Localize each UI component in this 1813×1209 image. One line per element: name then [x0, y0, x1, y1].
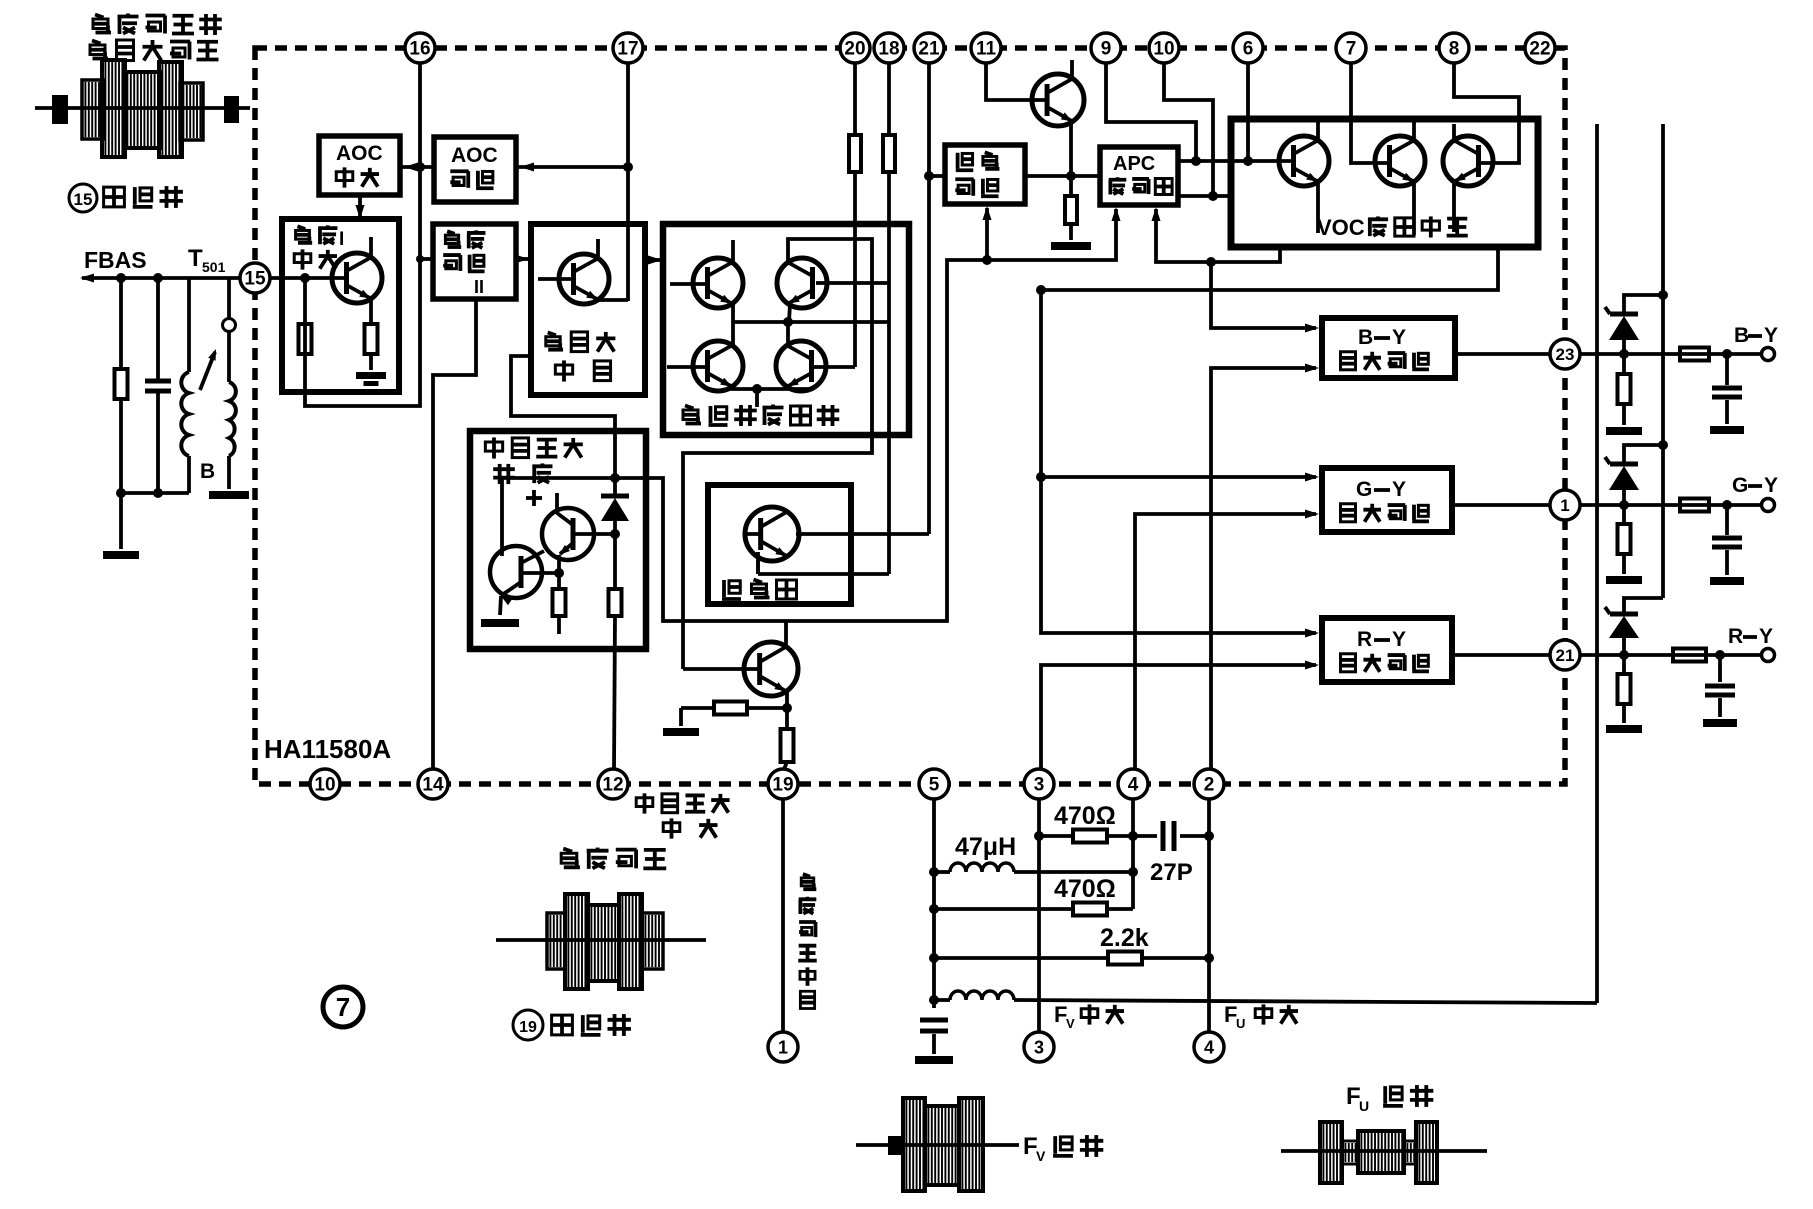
transistor Q4 (saturation ctl bottom-right, mirrored): [776, 341, 826, 391]
wire pin7 to V2 base: [1351, 63, 1390, 163]
resistor (follower bias): [681, 702, 787, 727]
node VCO return to pin2 line: [1206, 257, 1216, 267]
node R-Y cap junction: [1715, 650, 1725, 660]
svg-text:B: B: [1734, 324, 1749, 347]
wire B-Y lower input from pin2 line: [1211, 364, 1319, 770]
node rail junction G-Y: [1658, 440, 1668, 450]
wire V3 emitter: [1452, 182, 1456, 232]
svg-text:23: 23: [1556, 345, 1575, 364]
label G-Y: [1732, 474, 1778, 497]
svg-text:12: 12: [602, 775, 623, 796]
node pin16-line branch: [416, 255, 424, 263]
wire Q3 collector: [731, 322, 735, 345]
node base junction (pin15): [300, 273, 310, 283]
wire AOC det input from pin17: [516, 163, 628, 172]
plus sign (shaper): [526, 490, 542, 506]
resistor (APC input bias): [1065, 176, 1077, 240]
wire emitter bus (top pair): [733, 320, 889, 324]
node gate pulse to killer det: [982, 255, 992, 265]
svg-text:6: 6: [1243, 39, 1254, 60]
wire pin17 line: [626, 63, 630, 301]
ground (pin5): [915, 1056, 953, 1064]
ground (G-Y bias): [1606, 576, 1642, 584]
IC boundary HA11580A (dashed box): [255, 48, 1565, 784]
block chroma amplifier I: [282, 219, 399, 392]
pin 18 (top): [874, 33, 904, 63]
pin 11 (top): [971, 33, 1001, 63]
svg-text:2: 2: [1204, 775, 1215, 796]
pin 21 (right): [1550, 640, 1580, 670]
resistor (R-Y series): [1673, 649, 1706, 662]
node row1 pin2: [1204, 831, 1214, 841]
pin 15 (left): [240, 263, 270, 293]
diode (G-Y clamp, zener): [1605, 445, 1663, 505]
svg-text:470Ω: 470Ω: [1054, 802, 1116, 830]
svg-text:9: 9: [1101, 39, 1112, 60]
ground (chroma amp I): [356, 372, 386, 379]
Fv waveform icon: [856, 1098, 1019, 1191]
resistor (pin19 series): [781, 708, 794, 769]
wire burst gate output to saturation control: [645, 256, 662, 265]
node row3 pin2: [1204, 953, 1214, 963]
wire pin18 line to killer emitter: [758, 63, 889, 574]
ground (T501 secondary): [209, 491, 249, 499]
svg-text:4: 4: [1128, 775, 1139, 796]
wire V2 emitter: [1412, 182, 1416, 235]
wire pin15 to chroma amp: [270, 276, 347, 280]
node follower emitter junction: [782, 703, 792, 713]
pin 2 (bottom): [1194, 769, 1224, 799]
diode (gate pulse clamp): [601, 478, 629, 534]
wire AOC amp to chroma amp I (arrow down): [356, 195, 365, 219]
transistor (color killer): [745, 507, 799, 561]
resistor (B-Y bias): [1618, 354, 1631, 425]
block color saturation control: [663, 224, 909, 435]
ground (B-Y bias): [1606, 427, 1642, 435]
block gate pulse shaper: [470, 431, 646, 649]
wire pin19 to output terminal 1: [781, 799, 785, 1032]
svg-text:7: 7: [336, 992, 350, 1022]
pin 17 (top): [613, 33, 643, 63]
resistor (G-Y series): [1680, 499, 1709, 512]
pin 10 (top): [1149, 33, 1179, 63]
label pin-15 waveform caption: [69, 184, 183, 212]
svg-text:470Ω: 470Ω: [1054, 875, 1116, 903]
svg-text:R: R: [1357, 628, 1372, 651]
svg-text:B: B: [200, 460, 215, 483]
label chroma signal output (vertical): [803, 874, 810, 877]
node row4 pin5: [929, 995, 939, 1005]
ground (follower bias): [663, 728, 699, 736]
wire pin4 column: [1131, 799, 1135, 909]
pin 20 (top): [840, 33, 870, 63]
diode (B-Y clamp, zener): [1605, 295, 1663, 354]
pin 7 (top): [1336, 33, 1366, 63]
wire VCO subcarrier feed to G-Y and R-Y: [1041, 245, 1498, 633]
wire Q1 base: [670, 282, 707, 286]
transformer T501: [181, 245, 236, 493]
wire killer base stub: [743, 532, 760, 536]
svg-text:22: 22: [1529, 39, 1550, 60]
wire Q2 collector loop to killer-follower base: [683, 239, 872, 669]
transistor Q2 (saturation ctl top-right, mirrored): [777, 258, 827, 308]
svg-text:16: 16: [409, 39, 430, 60]
svg-text:Y: Y: [1764, 474, 1778, 497]
svg-text:Y: Y: [1392, 326, 1406, 349]
svg-text:21: 21: [1556, 646, 1575, 665]
wire pin21 line to killer collector: [799, 63, 929, 534]
transistor Qa (shaper left): [490, 546, 544, 605]
block APC phase detector: [1100, 147, 1178, 205]
svg-text:I: I: [339, 229, 344, 250]
wire pin20 to Q4 base: [814, 63, 855, 367]
label Fu input: [1224, 1002, 1298, 1031]
block AOC amplifier: [319, 136, 400, 195]
svg-text:VOC: VOC: [1317, 215, 1365, 240]
wire follower collector: [784, 621, 788, 647]
svg-text:10: 10: [1153, 39, 1174, 60]
wire G-Y lower input from pin4 line: [1135, 510, 1319, 770]
svg-text:V: V: [1036, 1148, 1046, 1164]
Fu waveform icon: [1281, 1122, 1487, 1183]
wire follower emitter: [785, 691, 789, 708]
svg-text:3: 3: [1034, 775, 1045, 796]
transistor Q3 (saturation ctl bottom-left): [693, 341, 743, 391]
node R-Y diode junction: [1619, 650, 1629, 660]
terminal R-Y: [1762, 649, 1775, 662]
wire killer det bottom input: [983, 206, 992, 260]
node 47uH left: [929, 867, 939, 877]
wire shaper left rail: [500, 478, 504, 556]
svg-text:27P: 27P: [1150, 859, 1193, 886]
node FBAS junction A: [116, 273, 126, 283]
block burst gate (color sync gate): [531, 224, 645, 395]
node rail junction B-Y: [1658, 290, 1668, 300]
wire B-Y upper input from VCO line: [1211, 262, 1319, 333]
svg-text:20: 20: [844, 39, 865, 60]
pin 10 (bottom): [310, 769, 340, 799]
terminal 1 (chroma output): [768, 1032, 798, 1062]
wire collector (burst gate): [596, 239, 600, 257]
label gate pulse input: [636, 793, 729, 838]
svg-text:8: 8: [1449, 39, 1460, 60]
wire pin11 to buffer base: [986, 63, 1048, 100]
node G-Y upper branch: [1036, 472, 1046, 482]
svg-text:15: 15: [244, 269, 266, 290]
ground (R-Y cap): [1703, 719, 1737, 727]
pin 21 (top): [914, 33, 944, 63]
ground (FBAS network): [103, 493, 139, 559]
wire branch to chroma det II: [420, 257, 433, 261]
node G-Y diode junction: [1619, 500, 1629, 510]
inductor (second) and long wire to right rail: [934, 991, 1597, 1003]
wire pin2 column: [1207, 799, 1211, 1032]
pin 14 (bottom): [418, 769, 448, 799]
pin 19 (bottom): [768, 769, 798, 799]
wire Qb collector stub: [555, 493, 559, 514]
ground (shaper): [481, 619, 519, 627]
node pin6 junction: [1243, 156, 1253, 166]
block G-Y sync detector: [1322, 468, 1452, 532]
capacitor (pin5 to ground): [920, 1018, 948, 1055]
svg-text:AOC: AOC: [336, 142, 383, 165]
node Qb emitter: [554, 568, 564, 578]
node pin10 junction: [1208, 191, 1218, 201]
resistor (FBAS shunt): [115, 278, 128, 493]
node saturation control stub: [752, 384, 762, 394]
node 47uH right: [1128, 867, 1138, 877]
node shaper rail junction: [610, 473, 620, 483]
pin 6 (top): [1233, 33, 1263, 63]
capacitor 27P: [1161, 821, 1166, 851]
node bottom junction A: [116, 488, 126, 498]
node B-Y diode junction: [1619, 349, 1629, 359]
terminal B-Y: [1762, 348, 1775, 361]
svg-text:15: 15: [74, 190, 93, 209]
svg-text:1: 1: [1560, 496, 1569, 515]
pin 3 (bottom): [1024, 769, 1054, 799]
capacitor (R-Y output): [1705, 655, 1735, 717]
svg-text:APC: APC: [1113, 153, 1155, 175]
node diode/collector junction: [610, 529, 620, 539]
svg-text:17: 17: [617, 39, 638, 60]
wire gate pulse output to killer det and APC: [615, 209, 1116, 621]
wire pin5 column: [932, 799, 936, 1008]
resistor (B-Y series): [1680, 348, 1709, 361]
wire Qb base to diode line: [575, 532, 615, 536]
wire pin21 branch to killer detector: [929, 174, 945, 178]
pin 5 (bottom): [919, 769, 949, 799]
node row1 pin3: [1034, 831, 1044, 841]
transistor (chroma output follower): [744, 642, 798, 696]
wire base (burst gate): [538, 277, 574, 281]
wire V2 collector: [1412, 122, 1416, 140]
wire pin9 line: [1106, 63, 1196, 161]
svg-text:G: G: [1732, 474, 1748, 497]
svg-text:R: R: [1728, 625, 1743, 648]
node row1 pin4: [1128, 831, 1138, 841]
wire Q1 emitter: [731, 304, 735, 322]
svg-text:FBAS: FBAS: [84, 247, 147, 273]
node buffer emitter junction: [1066, 171, 1076, 181]
wire shaper top rail: [503, 476, 615, 480]
wire Qa emitter to ground: [500, 596, 501, 615]
resistor (R-Y bias): [1618, 655, 1631, 723]
transistor Qb (shaper right): [542, 508, 594, 560]
svg-text:Y: Y: [1764, 324, 1778, 347]
svg-text:21: 21: [918, 39, 940, 60]
wire emitter to pin17 line: [596, 298, 628, 302]
wire Q2 base to pin18 line: [816, 281, 889, 285]
wire emitter bus (bottom pair): [727, 387, 813, 391]
wire pin16 feedback line: [305, 63, 420, 406]
wire Qb emitter junction: [557, 555, 561, 573]
label B-Y: [1734, 324, 1778, 347]
resistor (pin18 line): [883, 135, 895, 172]
wire R-Y lower input from pin3 line: [1041, 661, 1319, 770]
wire 2.2k row (pin5 to pin2): [934, 952, 1209, 965]
label Fv waveform: [1023, 1133, 1103, 1164]
svg-text:B: B: [1358, 326, 1373, 349]
block R-Y sync detector: [1322, 618, 1452, 682]
pin 4 (bottom): [1118, 769, 1148, 799]
svg-text:1: 1: [778, 1037, 788, 1057]
node AOC junction: [415, 162, 425, 172]
FBAS input wire: [80, 247, 245, 283]
pin 22 (top): [1525, 33, 1555, 63]
supply rail (right, inner): [1595, 124, 1599, 1003]
wire Q3 emitter: [731, 387, 735, 389]
block AOC detector: [434, 137, 516, 202]
wire Q3 base: [667, 365, 707, 369]
transistor V3 (VCO, mirrored): [1443, 136, 1493, 186]
capacitor (G-Y output): [1712, 505, 1742, 575]
pin 16 (top): [405, 33, 435, 63]
pin 12 (bottom): [598, 769, 628, 799]
resistor (pin20 line): [849, 135, 861, 172]
wire pin10 line: [1164, 63, 1213, 196]
svg-text:II: II: [474, 277, 484, 297]
resistor (G-Y bias): [1618, 505, 1631, 574]
wire follower base: [683, 667, 759, 671]
inductor 47uH: [934, 863, 1133, 872]
block B-Y sync detector: [1322, 318, 1455, 378]
ground (B-Y cap): [1710, 426, 1744, 434]
ground (R-Y bias): [1606, 725, 1642, 733]
svg-text:4: 4: [1204, 1037, 1214, 1057]
svg-text:2.2k: 2.2k: [1100, 924, 1149, 952]
wire Q2 emitter: [789, 304, 790, 322]
label Fv input: [1054, 1002, 1124, 1031]
wire APC output to VCO: [1178, 159, 1292, 163]
resistor (shaper emitter): [553, 573, 566, 634]
terminal 3 (Fv input): [1024, 1032, 1054, 1062]
resistor (chroma amp base): [299, 324, 312, 354]
wire burst gate to gate pulse shaper (thin feed): [511, 356, 615, 478]
node bottom junction B: [153, 488, 163, 498]
transistor V2 (VCO): [1375, 136, 1425, 186]
svg-text:14: 14: [422, 775, 444, 796]
svg-text:18: 18: [878, 39, 899, 60]
svg-text:U: U: [1359, 1098, 1369, 1114]
wire bottom bus of FBAS network: [121, 491, 189, 495]
pin 1 (right): [1550, 490, 1580, 520]
svg-text:Y: Y: [1392, 478, 1406, 501]
svg-text:T: T: [188, 245, 203, 272]
node row3 pin5: [929, 953, 939, 963]
resistor (diode line): [609, 534, 622, 769]
pin 8 (top): [1439, 33, 1469, 63]
node emitter bus junction: [783, 317, 793, 327]
svg-text:Y: Y: [1759, 625, 1773, 648]
capacitor (FBAS shunt): [145, 278, 171, 493]
label pin-19 waveform caption: [513, 1010, 631, 1040]
block killer detector (ACC det): [945, 145, 1025, 204]
resistor (chroma amp I emitter): [365, 299, 378, 370]
supply rail (right, outer): [1661, 124, 1665, 598]
wire 470ohm row 2 (pin5 to pin4): [934, 903, 1133, 916]
wire Q4 collector: [786, 322, 790, 345]
wire Qa base to emitter junction: [521, 571, 559, 575]
node pin17/AOC junction: [623, 162, 633, 172]
capacitor (B-Y output): [1712, 354, 1742, 424]
terminal G-Y: [1762, 499, 1775, 512]
diode (R-Y clamp, zener): [1605, 598, 1663, 655]
svg-text:Y: Y: [1392, 628, 1406, 651]
pin 9 (top): [1091, 33, 1121, 63]
transistor (burst gate): [559, 254, 609, 304]
node G-Y cap junction: [1722, 500, 1732, 510]
node pin21 to ACC det: [924, 171, 934, 181]
svg-text:HA11580A: HA11580A: [264, 734, 391, 764]
svg-text:19: 19: [772, 775, 793, 796]
wire chroma det II to pin14: [433, 299, 476, 769]
svg-text:11: 11: [976, 39, 997, 60]
wire killer emitter lead: [756, 552, 760, 574]
wire Q4 emitter: [785, 387, 789, 389]
node corner VCO feed: [1036, 285, 1046, 295]
svg-text:47μH: 47μH: [955, 833, 1016, 861]
wire B-Y output row: [1455, 352, 1762, 356]
wire AOC amp to AOC det: [400, 163, 434, 172]
label R-Y: [1728, 625, 1773, 648]
wire G-Y output row: [1452, 503, 1762, 507]
wire R-Y output row: [1452, 653, 1762, 657]
wire V3 collector: [1452, 124, 1456, 140]
wire 470ohm row (pin3 to pin2): [1039, 830, 1209, 843]
chroma signal waveform icon (pin19): [496, 848, 706, 989]
svg-text:U: U: [1236, 1016, 1245, 1031]
terminal 4 (Fu input): [1194, 1032, 1224, 1062]
block chroma detector II: [433, 224, 516, 299]
svg-text:G: G: [1356, 478, 1372, 501]
node pin9 junction: [1191, 156, 1201, 166]
ground (APC input bias): [1051, 242, 1091, 250]
svg-text:3: 3: [1034, 1037, 1044, 1057]
svg-text:5: 5: [929, 775, 940, 796]
svg-text:501: 501: [202, 259, 226, 275]
node B-Y cap junction: [1722, 349, 1732, 359]
ground (G-Y cap): [1710, 577, 1744, 585]
svg-text:AOC: AOC: [451, 144, 498, 167]
label chroma+burst signal (top-left): [90, 14, 222, 61]
wire pin6 line: [1246, 63, 1250, 161]
wire Q1 collector: [731, 240, 735, 262]
svg-text:V: V: [1066, 1016, 1075, 1031]
wire pin3 column: [1037, 799, 1041, 1032]
wire APC control to VCO: [1178, 194, 1231, 198]
svg-text:7: 7: [1346, 39, 1357, 60]
pin-15 waveform icon (burst envelope): [35, 60, 250, 157]
block color killer: [708, 485, 851, 604]
wire buffer emitter: [1069, 124, 1073, 176]
wire V1 emitter: [1316, 182, 1320, 233]
svg-text:19: 19: [519, 1019, 537, 1036]
wire chroma det II output arrow: [515, 255, 531, 264]
wire G-Y upper input: [1041, 473, 1319, 482]
wire killer collector lead: [796, 532, 799, 536]
wire buffer collector: [1070, 60, 1074, 80]
pin 23: [1550, 339, 1580, 369]
node FBAS junction B: [153, 273, 163, 283]
node row2 pin5: [929, 904, 939, 914]
wire V1 collector: [1316, 122, 1320, 140]
wire collector (chroma amp I): [369, 237, 373, 257]
transistor (pin11 buffer): [1032, 74, 1084, 126]
block VCO (voltage controlled oscillator): [1231, 119, 1538, 247]
transistor V1 (VCO): [1279, 136, 1329, 186]
transistor Q1 (saturation ctl top-left): [693, 258, 743, 308]
